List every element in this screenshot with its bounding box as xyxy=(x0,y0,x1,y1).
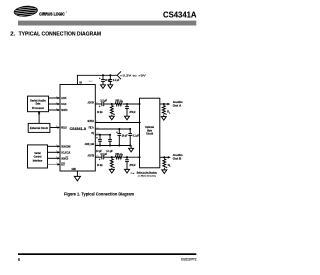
wire clock to processor xyxy=(38,114,40,124)
resistor R2 560 xyxy=(115,101,122,106)
svg-text:Out B: Out B xyxy=(173,157,182,161)
svg-text:MCLK: MCLK xyxy=(61,126,67,130)
svg-text:VQ: VQ xyxy=(91,131,94,135)
svg-text:7: 7 xyxy=(79,174,81,176)
pin numbers xyxy=(56,81,100,176)
wire RST xyxy=(48,163,59,165)
svg-text:0.1 µF: 0.1 µF xyxy=(106,150,113,153)
box serial audio data processor xyxy=(28,96,49,112)
svg-text:AOUTB: AOUTB xyxy=(88,154,94,158)
wire VQ xyxy=(95,134,110,136)
svg-text:TYPICAL CONNECTION DIAGRAM: TYPICAL CONNECTION DIAGRAM xyxy=(19,32,102,38)
svg-text:DS522PP2: DS522PP2 xyxy=(181,257,197,261)
svg-text:on Mute Circuitry: on Mute Circuitry xyxy=(138,174,157,177)
svg-text:Control: Control xyxy=(34,155,42,159)
wire SDA/CDIN xyxy=(48,145,59,147)
Cirrus Logic logo mark xyxy=(13,5,40,18)
svg-text:LRCK: LRCK xyxy=(61,96,66,100)
wire SDATA xyxy=(49,109,59,111)
supply arrow xyxy=(117,71,121,79)
capacitor C3 3.3uF xyxy=(101,102,103,106)
svg-text:L: L xyxy=(169,112,171,114)
ground C1 xyxy=(101,85,106,89)
ground C10 xyxy=(125,169,130,173)
wire AOUTB xyxy=(95,156,102,158)
footnote rule xyxy=(137,172,158,174)
svg-text:560 Ω: 560 Ω xyxy=(115,153,122,156)
svg-text:2700 pF: 2700 pF xyxy=(130,111,137,114)
resistor R3 10k xyxy=(110,159,114,168)
DAC U1 CS4341A xyxy=(60,85,95,172)
ground AGND xyxy=(129,148,134,152)
box microcontroller xyxy=(28,145,48,168)
svg-text:AD0/CS: AD0/CS xyxy=(61,156,68,160)
svg-text:560 Ω: 560 Ω xyxy=(115,100,122,103)
resistor R1 10k xyxy=(110,106,114,115)
svg-text:0.1 µF: 0.1 µF xyxy=(113,79,120,82)
svg-text:CS4341A: CS4341A xyxy=(163,11,197,20)
wire audio out B xyxy=(160,156,168,158)
svg-text:CIRRUS LOGIC: CIRRUS LOGIC xyxy=(39,11,65,16)
overline AD0/CS xyxy=(66,156,69,158)
svg-text:10 µF: 10 µF xyxy=(105,79,111,82)
wire FILT+ xyxy=(95,128,130,130)
svg-text:3.3 µF: 3.3 µF xyxy=(100,153,107,156)
capacitor C2 0.1uF xyxy=(108,79,112,81)
capacitor C4 2700pF xyxy=(126,104,128,107)
svg-text:RST: RST xyxy=(61,163,65,167)
svg-text:CS4341-A: CS4341-A xyxy=(70,127,87,131)
ground main xyxy=(74,176,80,181)
svg-text:Figure 1. Typical Connection D: Figure 1. Typical Connection Diagram xyxy=(64,192,134,197)
svg-text:2700 pF: 2700 pF xyxy=(130,164,137,167)
wire MCLK xyxy=(50,127,58,129)
capacitor C10 2700pF xyxy=(126,157,128,160)
junction dots xyxy=(38,74,165,158)
ground RL1 xyxy=(161,117,166,121)
box optional mute circuit xyxy=(140,98,160,168)
svg-text:FILT+: FILT+ xyxy=(89,125,95,129)
footer rule xyxy=(18,253,196,255)
svg-text:Out A: Out A xyxy=(173,103,182,107)
svg-text:+: + xyxy=(96,137,98,140)
svg-text:3.3 µF: 3.3 µF xyxy=(100,100,107,103)
svg-text:SCL/CCLK: SCL/CCLK xyxy=(61,150,70,154)
wire AOUTA xyxy=(95,103,102,105)
wire SCL/CCLK xyxy=(48,151,59,153)
capacitor C7 10uF VQ xyxy=(99,135,101,140)
svg-text:AOUTA: AOUTA xyxy=(88,100,94,104)
overline RST xyxy=(61,162,65,164)
wire MUTEC xyxy=(95,122,139,124)
svg-text:14 4: 14 4 xyxy=(89,81,94,83)
wire row B to mute xyxy=(122,156,139,158)
ground C2 xyxy=(108,85,113,89)
wire SCLK xyxy=(49,103,59,105)
svg-text:External Clock: External Clock xyxy=(30,126,49,130)
arrowheads xyxy=(38,97,171,166)
svg-text:Circuit: Circuit xyxy=(146,132,153,136)
svg-text:+3.3V to +5V: +3.3V to +5V xyxy=(120,73,147,77)
svg-text:GND: GND xyxy=(72,167,76,171)
svg-text:Processor: Processor xyxy=(32,106,45,110)
svg-text:10 kΩ: 10 kΩ xyxy=(97,164,103,167)
box external clock source xyxy=(28,123,50,132)
svg-text:L: L xyxy=(170,166,172,168)
svg-text:6: 6 xyxy=(18,257,21,262)
capacitor C9 3.3uF xyxy=(101,155,103,159)
svg-text:SCLK: SCLK xyxy=(61,102,66,106)
wire AD0/CS xyxy=(48,157,59,159)
svg-text:+: + xyxy=(99,77,101,80)
svg-text:®: ® xyxy=(66,11,68,14)
svg-text:VA: VA xyxy=(79,81,82,85)
ground R1 xyxy=(109,116,114,120)
capacitor C8 0.1uF VQ xyxy=(109,135,111,140)
resistor R4 560 xyxy=(115,154,122,159)
capacitor C1 10uF xyxy=(101,79,105,81)
svg-text:Refer to the Section: Refer to the Section xyxy=(137,171,158,174)
ground R3 xyxy=(109,169,114,173)
capacitor C6 0.1uF FILT xyxy=(129,129,131,134)
svg-text:SDATA: SDATA xyxy=(61,108,67,112)
ground RL2 xyxy=(162,170,167,174)
svg-text:+: + xyxy=(99,105,101,108)
capacitor C5 10uF FILT xyxy=(118,129,120,134)
svg-text:+: + xyxy=(99,158,101,161)
svg-text:2.: 2. xyxy=(10,32,15,38)
wire AGND rail xyxy=(95,146,131,149)
svg-text:MUTEC: MUTEC xyxy=(88,119,94,123)
svg-text:SDA/CDIN: SDA/CDIN xyxy=(61,144,70,148)
wire row A to mute xyxy=(122,103,139,105)
svg-text:Serial: Serial xyxy=(34,151,41,155)
svg-text:Interface: Interface xyxy=(33,159,43,163)
wire VA supply xyxy=(77,75,117,84)
svg-text:0.1 µF: 0.1 µF xyxy=(133,134,140,137)
resistor RL1 xyxy=(162,106,166,115)
ground C4 xyxy=(125,116,130,120)
svg-text:* =: * = xyxy=(131,173,135,176)
svg-text:10 kΩ: 10 kΩ xyxy=(97,111,103,114)
svg-text:10 µF: 10 µF xyxy=(122,134,128,137)
wire LRCK xyxy=(49,97,59,99)
header rule bar xyxy=(18,21,196,26)
wire audio out A xyxy=(160,103,168,105)
wire GND stub xyxy=(76,171,78,176)
resistor RL2 xyxy=(163,159,167,168)
svg-text:AGND_A&B: AGND_A&B xyxy=(85,142,94,146)
